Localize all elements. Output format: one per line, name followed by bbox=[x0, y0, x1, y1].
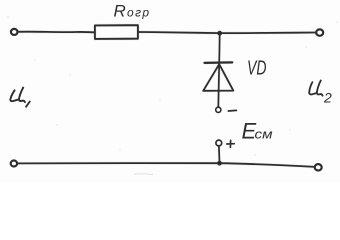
terminal top-left (input U1 +) bbox=[11, 29, 18, 35]
terminal bottom-right (output U2 -) bbox=[315, 164, 322, 170]
svg-text:огр: огр bbox=[127, 5, 150, 19]
svg-text:2: 2 bbox=[323, 90, 332, 106]
label U2 (output voltage) bbox=[309, 82, 316, 94]
svg-text:VD: VD bbox=[247, 58, 267, 80]
wire Ecm plus terminal to node B bbox=[218, 146, 221, 163]
node A junction top bbox=[217, 31, 222, 36]
wire resistor to node A bbox=[138, 32, 220, 33]
svg-text:см: см bbox=[255, 127, 273, 142]
wire top-left terminal to resistor bbox=[18, 31, 95, 34]
diode VD cathode bar bbox=[205, 61, 233, 64]
wire node A down through diode VD bbox=[218, 33, 219, 107]
resistor Rogr bbox=[95, 25, 138, 39]
paper background bbox=[0, 0, 340, 183]
diode VD triangle (anode up) bbox=[203, 64, 233, 91]
terminal bottom-left (input U1 -) bbox=[11, 161, 17, 167]
plus polarity mark bbox=[227, 140, 234, 147]
wire node A to top-right terminal bbox=[220, 32, 317, 35]
svg-text:R: R bbox=[114, 2, 126, 21]
wire bottom rail bbox=[17, 163, 315, 167]
minus polarity mark bbox=[228, 109, 236, 112]
node B junction bottom bbox=[217, 161, 222, 166]
terminal top-right (output U2 +) bbox=[316, 29, 323, 35]
label U1 (input voltage) bbox=[10, 90, 17, 101]
terminal diode anode (Ecm minus) bbox=[216, 107, 221, 112]
terminal Ecm plus bbox=[216, 140, 222, 146]
